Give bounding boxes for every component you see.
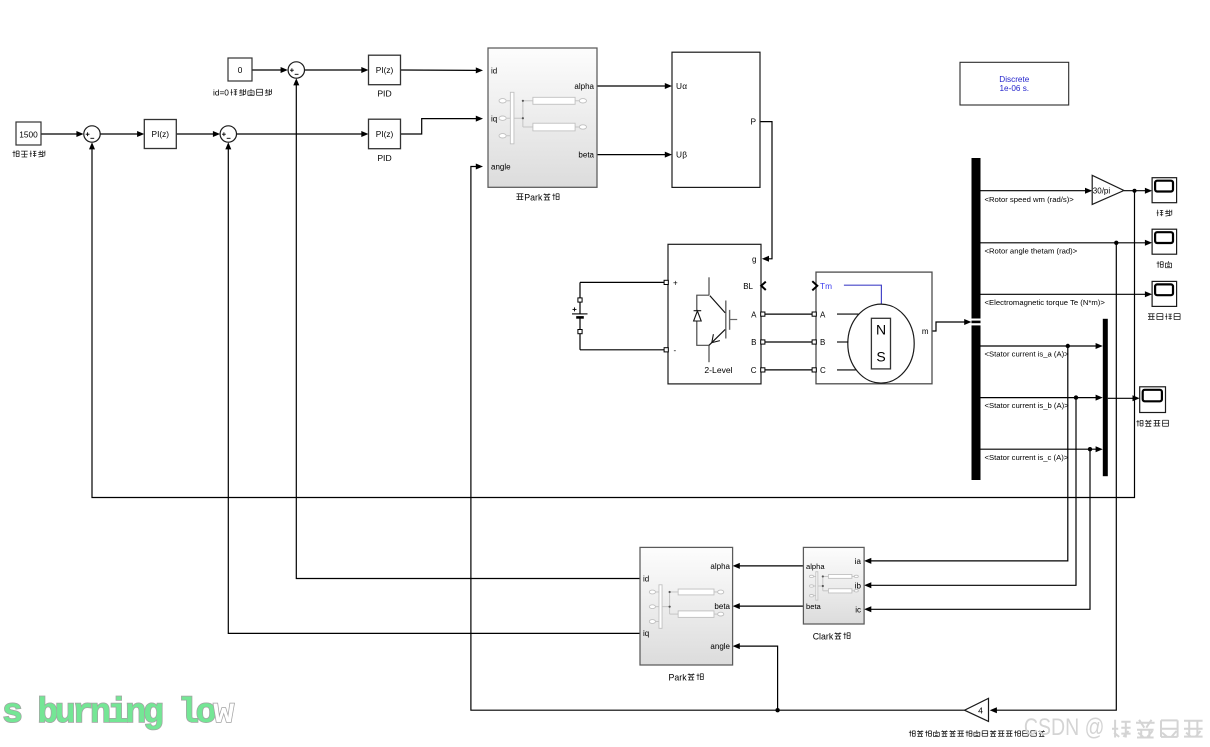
svg-text:alpha: alpha [710,562,730,571]
svg-text:B: B [751,338,756,347]
svg-text:N: N [876,322,886,338]
svg-text:-: - [674,346,677,355]
svg-text:Tm: Tm [820,281,832,291]
svg-text:2-Level: 2-Level [704,365,732,375]
svg-text:A: A [751,310,757,319]
svg-text:<Stator current is_b (A)>: <Stator current is_b (A)> [985,401,1070,410]
svg-text:1500: 1500 [19,129,38,139]
svg-text:<Rotor speed wm (rad/s)>: <Rotor speed wm (rad/s)> [985,195,1075,204]
svg-text:ib: ib [855,581,862,590]
svg-text:g: g [752,255,756,264]
svg-text:Clark: Clark [813,631,834,641]
svg-text:C: C [820,366,826,375]
svg-text:4: 4 [978,705,983,715]
svg-text:<Stator current is_a (A)>: <Stator current is_a (A)> [985,350,1070,359]
svg-text:0: 0 [238,65,243,75]
svg-text:CSDN @: CSDN @ [1024,714,1105,741]
svg-text:beta: beta [714,602,730,611]
svg-text:S: S [876,349,885,365]
svg-text:angle: angle [710,642,730,651]
svg-text:<Stator current is_c (A)>: <Stator current is_c (A)> [985,453,1069,462]
svg-text:angle: angle [491,163,511,172]
svg-text:30/pi: 30/pi [1093,186,1111,195]
svg-text:PID: PID [377,89,391,99]
svg-text:U: U [676,81,682,91]
svg-text:alpha: alpha [806,562,825,571]
svg-text:1e-06 s.: 1e-06 s. [1000,84,1030,93]
svg-text:Park: Park [669,672,688,682]
svg-text:β: β [682,150,687,160]
svg-text:iq: iq [643,629,649,638]
svg-text:C: C [751,366,757,375]
svg-text:s burning lo: s burning lo [2,693,216,733]
svg-text:Park: Park [524,192,543,202]
svg-text:<Rotor angle thetam (rad)>: <Rotor angle thetam (rad)> [985,246,1078,255]
svg-text:beta: beta [806,602,822,611]
svg-text:U: U [676,150,682,160]
svg-text:PI(z): PI(z) [152,129,170,139]
svg-text:iq: iq [491,115,497,124]
svg-text:id=0: id=0 [213,88,229,98]
svg-text:BL: BL [743,282,753,291]
svg-text:PI(z): PI(z) [376,65,394,75]
svg-text:id: id [643,574,649,583]
svg-text:PI(z): PI(z) [376,129,394,139]
svg-text:ia: ia [855,557,862,566]
svg-text:B: B [820,338,825,347]
svg-text:A: A [820,310,826,319]
svg-text:<Electromagnetic torque Te (N*: <Electromagnetic torque Te (N*m)> [985,298,1106,307]
svg-text:PID: PID [377,153,391,163]
svg-text:id: id [491,66,497,75]
svg-text:ic: ic [855,605,861,614]
svg-text:beta: beta [578,150,594,159]
svg-text:+: + [673,278,678,287]
svg-text:Discrete: Discrete [999,75,1029,84]
svg-text:α: α [682,81,687,91]
svg-text:m: m [922,327,929,336]
svg-text:P: P [750,117,756,127]
svg-text:alpha: alpha [574,82,594,91]
